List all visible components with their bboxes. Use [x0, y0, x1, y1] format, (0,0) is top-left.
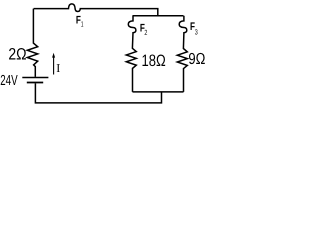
- svg-text:I: I: [56, 61, 60, 75]
- svg-text:1: 1: [81, 19, 84, 28]
- svg-text:18Ω: 18Ω: [142, 52, 166, 70]
- svg-text:2: 2: [144, 28, 147, 37]
- svg-text:2Ω: 2Ω: [8, 46, 26, 64]
- svg-text:9Ω: 9Ω: [188, 51, 205, 68]
- svg-text:24V: 24V: [0, 73, 18, 89]
- svg-text:3: 3: [195, 28, 198, 37]
